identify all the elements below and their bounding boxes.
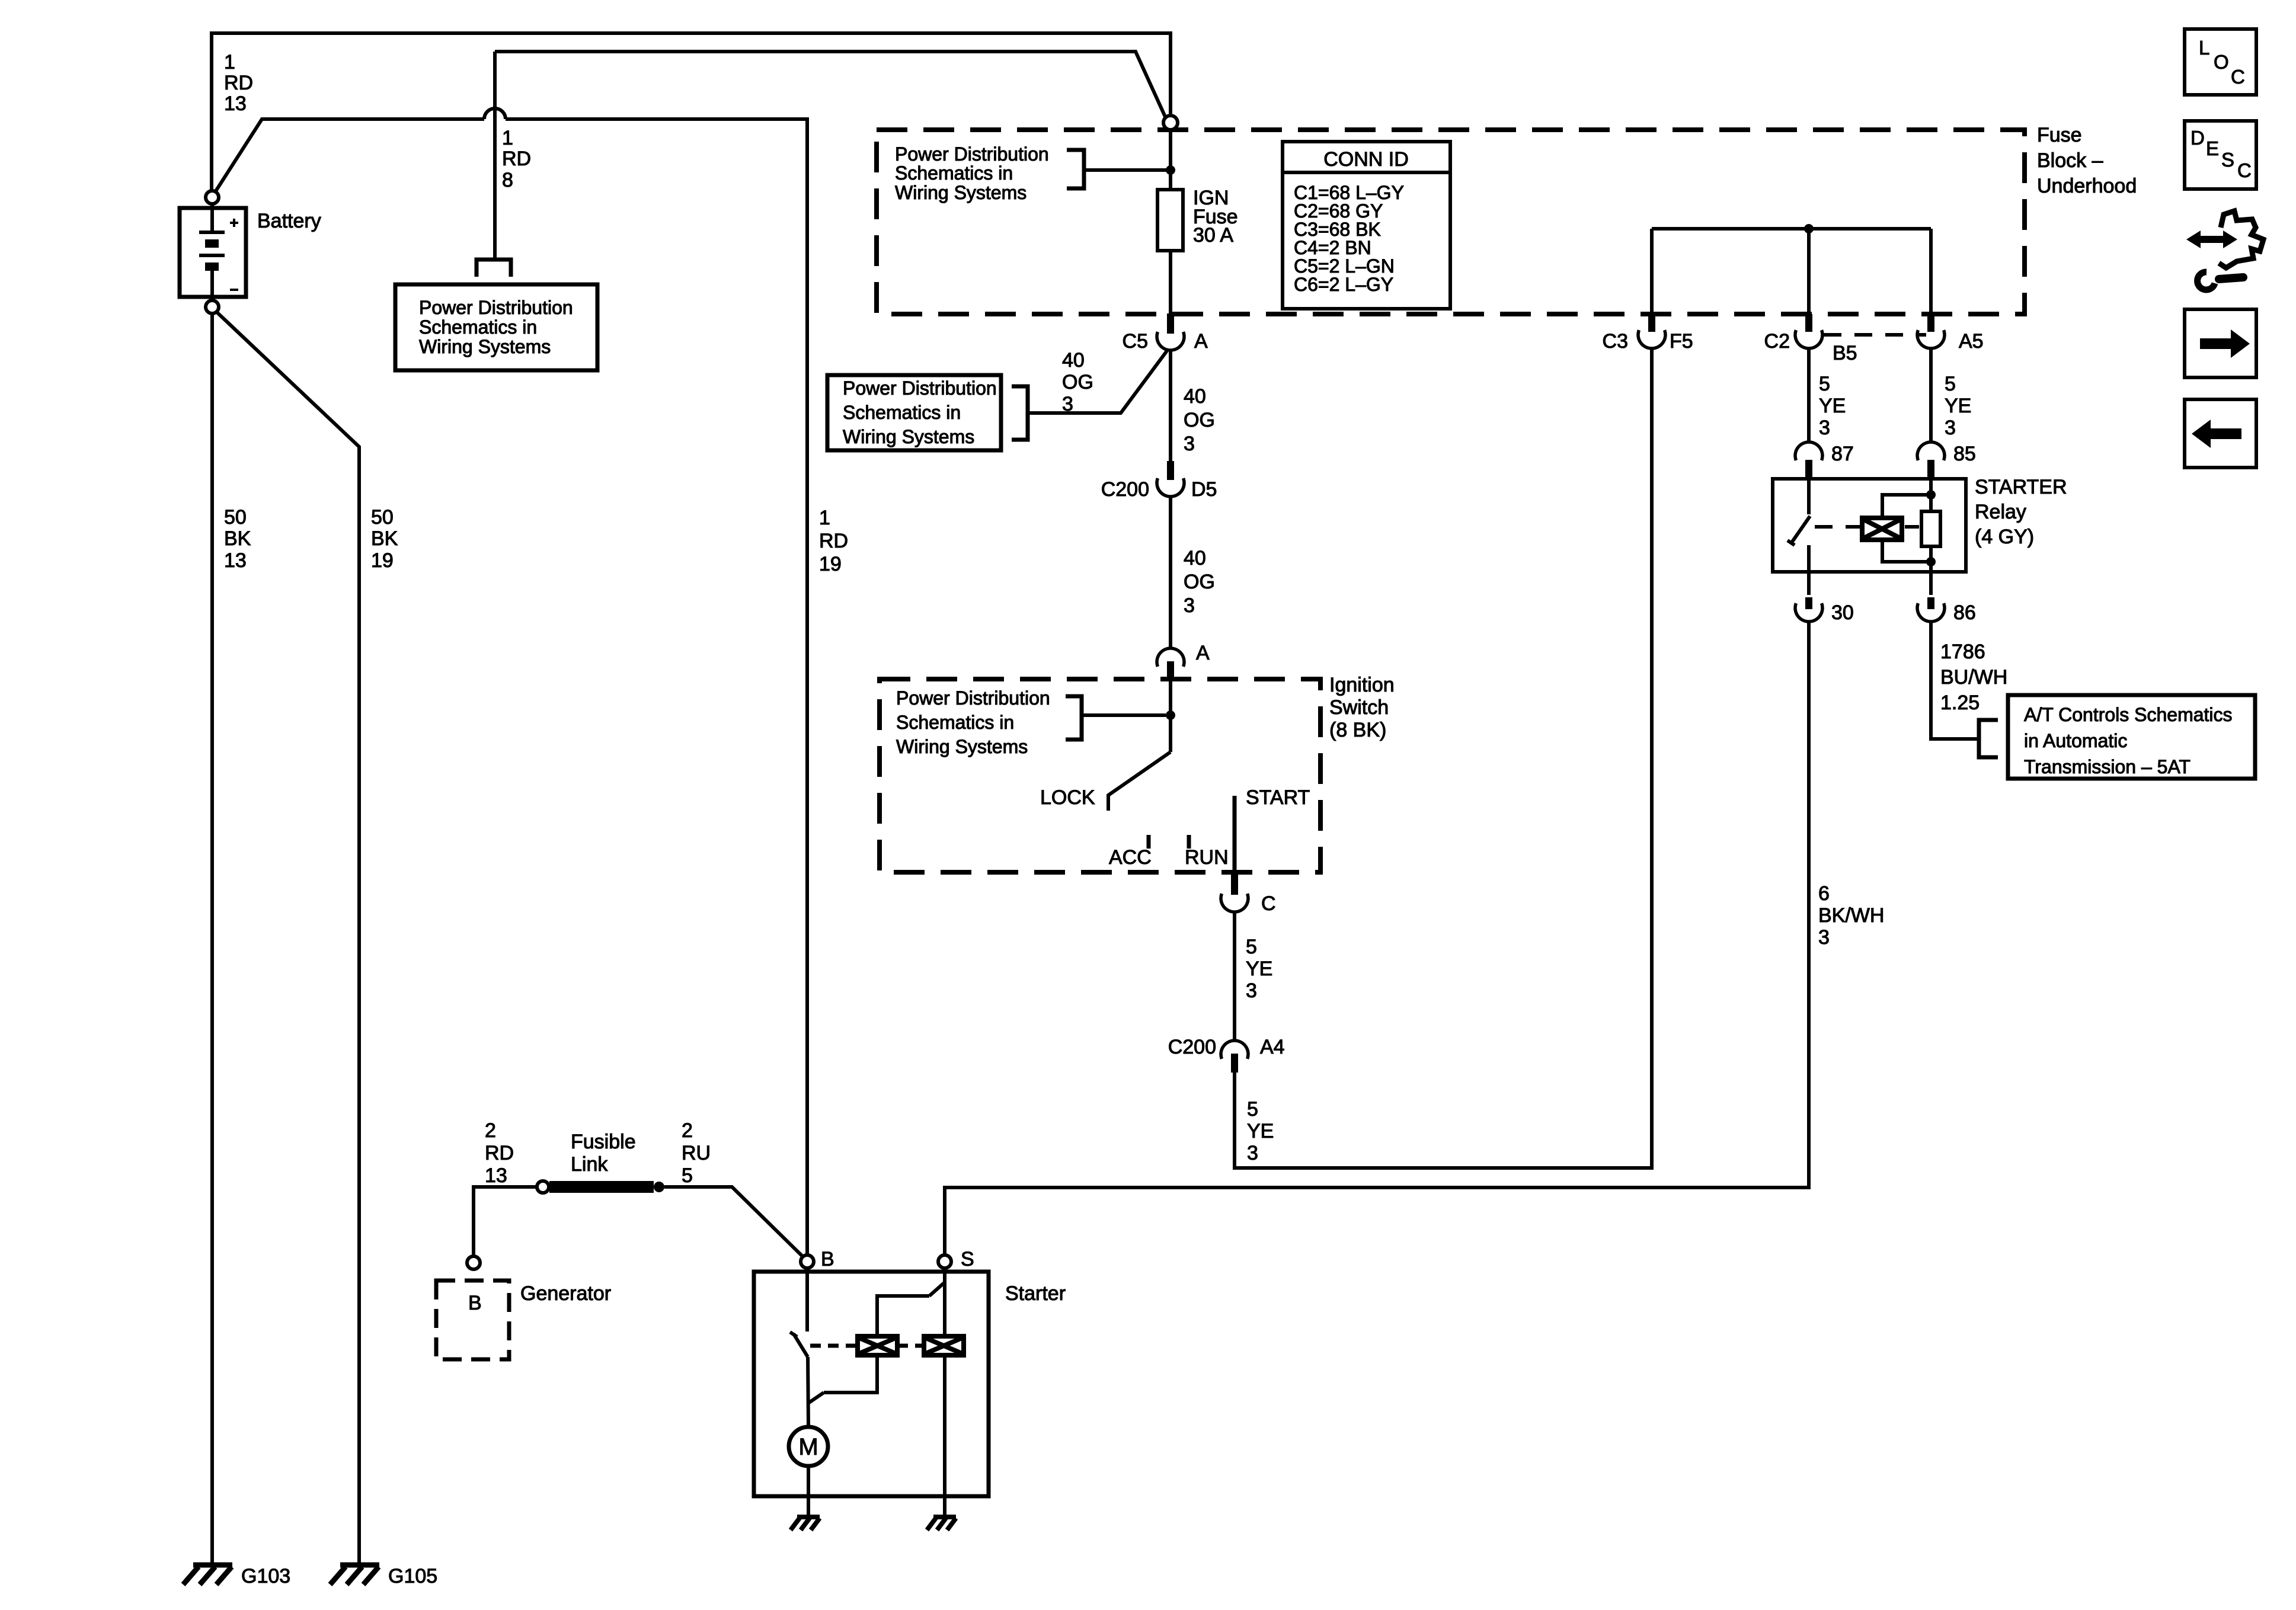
connector 85 cap	[1917, 442, 1945, 460]
svg-text:30 A: 30 A	[1193, 224, 1233, 247]
svg-text:Schematics in: Schematics in	[419, 316, 537, 338]
wire 1 RD 19 to starter B terminal	[506, 119, 807, 1255]
starter pull-in bottom wire	[824, 1355, 877, 1393]
svg-text:2: 2	[682, 1119, 693, 1142]
fuse block underhood dashed box	[877, 130, 2025, 314]
svg-text:5: 5	[1819, 373, 1830, 395]
wire A into ignition switch	[1169, 681, 1172, 752]
connector C200-D5 stub	[1167, 461, 1174, 480]
svg-text:YE: YE	[1945, 395, 1971, 417]
ground G103	[183, 1565, 232, 1585]
battery plate thick 2	[205, 263, 219, 271]
svg-text:50: 50	[224, 506, 247, 529]
svg-text:3: 3	[1062, 393, 1073, 415]
svg-text:Transmission – 5AT: Transmission – 5AT	[2024, 756, 2191, 777]
svg-text:RU: RU	[682, 1142, 711, 1164]
svg-text:YE: YE	[1819, 395, 1846, 417]
connector A5 cup	[1917, 330, 1945, 348]
connector C200-A4 stub	[1231, 1054, 1238, 1073]
svg-text:Underhood: Underhood	[2037, 175, 2137, 197]
svg-text:LOCK: LOCK	[1040, 786, 1095, 809]
svg-text:3: 3	[1945, 417, 1956, 439]
svg-text:BK: BK	[371, 527, 398, 550]
svg-text:Block –: Block –	[2037, 149, 2103, 172]
svg-text:C200: C200	[1168, 1036, 1216, 1058]
wire 6 BK/WH 3 from relay 30 to starter S	[945, 622, 1809, 1255]
svg-text:Power Distribution: Power Distribution	[895, 143, 1049, 165]
svg-text:OG: OG	[1184, 409, 1215, 431]
ACC contact tick	[1147, 835, 1151, 849]
DESC icon letters	[2191, 127, 2252, 181]
starter motor ground lead	[807, 1466, 810, 1517]
svg-text:Battery: Battery	[257, 210, 321, 232]
svg-text:Generator: Generator	[520, 1282, 611, 1305]
ignition switch wiper to LOCK	[1108, 752, 1171, 811]
svg-text:85: 85	[1953, 443, 1976, 465]
node splice above fuse block	[1163, 116, 1178, 130]
svg-text:3: 3	[1247, 1142, 1258, 1164]
svg-text:Power Distribution: Power Distribution	[896, 687, 1050, 709]
relay 87 wire to switch	[1807, 479, 1811, 514]
generator dashed box	[436, 1281, 509, 1359]
svg-text:A: A	[1196, 642, 1210, 664]
svg-text:BU/WH: BU/WH	[1940, 666, 2007, 689]
svg-text:START: START	[1246, 786, 1310, 809]
svg-text:Starter: Starter	[1005, 1282, 1066, 1305]
battery plus sign	[230, 219, 238, 227]
svg-text:YE: YE	[1247, 1120, 1274, 1142]
connector C5-A stub	[1167, 313, 1174, 334]
wire battery positive to 1 RD 19 run	[215, 119, 484, 192]
svg-text:1: 1	[502, 127, 513, 149]
LOC icon box	[2185, 29, 2256, 95]
starter relay box	[1773, 479, 1966, 572]
svg-text:RD: RD	[485, 1142, 514, 1164]
connector 30 cup	[1795, 603, 1822, 622]
svg-text:C: C	[2237, 159, 2252, 181]
svg-text:3: 3	[1246, 980, 1257, 1002]
svg-text:Schematics in: Schematics in	[843, 402, 961, 423]
connector C2-B5 stub	[1805, 314, 1812, 332]
RUN contact tick	[1187, 835, 1191, 849]
wire battery positive to top rail (1 RD 13)	[212, 33, 1171, 190]
svg-text:Link: Link	[571, 1153, 608, 1176]
power distribution box 2 text	[843, 377, 997, 447]
svg-text:40: 40	[1062, 349, 1085, 372]
relay resistor top lead	[1929, 495, 1933, 511]
starter hold-in winding crossed box	[924, 1336, 964, 1355]
wire bus to A5	[1929, 229, 1933, 314]
svg-text:C200: C200	[1101, 478, 1149, 501]
forward arrow icon box	[2185, 309, 2256, 377]
svg-text:A/T Controls Schematics: A/T Controls Schematics	[2024, 704, 2233, 725]
relay actuator dashed line	[1815, 525, 1862, 529]
svg-text:5: 5	[1247, 1098, 1258, 1121]
battery plate long 2	[199, 254, 225, 257]
CONN ID table rows	[1294, 182, 1404, 295]
svg-text:RD: RD	[819, 530, 848, 552]
svg-text:G103: G103	[241, 1565, 290, 1587]
relay junction dot bottom	[1926, 557, 1936, 566]
starter actuator dashed line	[810, 1344, 924, 1348]
svg-text:5: 5	[682, 1164, 693, 1187]
wire 40 OG 3 from C5 to C200	[1169, 350, 1172, 461]
connector A cap (ignition switch)	[1157, 648, 1184, 667]
svg-text:E: E	[2206, 137, 2219, 159]
DESC icon box	[2185, 121, 2256, 189]
wire 40 OG 3 branch to bracket	[1028, 351, 1167, 413]
START contact line	[1233, 796, 1237, 877]
service icon outline	[2219, 211, 2263, 268]
svg-text:C3: C3	[1603, 330, 1628, 353]
svg-text:RUN: RUN	[1185, 846, 1229, 869]
LOC icon letters	[2199, 37, 2245, 88]
svg-text:(4 GY): (4 GY)	[1975, 526, 2034, 548]
dashed connector body B5 to A5	[1824, 333, 1926, 337]
wire 5 YE 3 from C to C200 A4	[1233, 912, 1236, 1041]
svg-text:OG: OG	[1062, 371, 1093, 393]
svg-text:C6=2 L–GY: C6=2 L–GY	[1294, 274, 1393, 295]
svg-text:D5: D5	[1191, 478, 1217, 501]
battery box	[180, 208, 246, 297]
starter B wire inside box	[805, 1268, 809, 1331]
relay switch blade serif	[1787, 540, 1795, 545]
starter pull-in top wire	[877, 1296, 929, 1336]
svg-text:19: 19	[819, 553, 842, 575]
ground G105	[330, 1565, 379, 1585]
connector 87 stub	[1805, 460, 1812, 479]
starter B terminal circle	[801, 1255, 814, 1268]
svg-text:19: 19	[371, 549, 394, 572]
power distribution box 2	[827, 375, 1001, 450]
IGN fuse element	[1157, 190, 1183, 251]
svg-text:L: L	[2199, 37, 2209, 59]
svg-text:C5: C5	[1123, 330, 1148, 353]
starter S wire inside box	[943, 1268, 946, 1336]
svg-text:RD: RD	[502, 148, 531, 170]
wire 2 RU 5 fusible link to starter B	[664, 1187, 803, 1257]
battery negative terminal circle	[206, 300, 219, 313]
svg-text:C2: C2	[1764, 330, 1790, 353]
wire hop over 1 RD 8 (no connection)	[484, 108, 506, 119]
relay resistor bottom lead	[1929, 546, 1933, 572]
svg-text:Relay: Relay	[1975, 501, 2026, 523]
svg-text:A: A	[1194, 330, 1208, 353]
relay resistor element	[1921, 511, 1940, 546]
relay switch lower contact wire	[1807, 545, 1811, 572]
relay winding top wire	[1882, 495, 1931, 518]
connector C200-A4 cap	[1221, 1041, 1248, 1059]
starter pull-in winding crossed box	[858, 1336, 897, 1355]
svg-text:S: S	[961, 1248, 974, 1270]
wire 50 BK 13 battery negative to G103	[210, 313, 214, 1565]
starter switch to motor wire	[808, 1357, 808, 1427]
connector C2-B5 cup	[1795, 330, 1822, 348]
svg-text:BK: BK	[224, 527, 251, 550]
power distribution box 1	[395, 284, 597, 370]
power distribution text inside ignition switch	[896, 687, 1050, 757]
svg-text:Fusible: Fusible	[571, 1131, 636, 1153]
relay winding crossed box	[1862, 518, 1902, 540]
connector C3-F5 stub	[1648, 314, 1655, 332]
power distribution text inside fuse block	[895, 143, 1049, 203]
back arrow icon box	[2185, 399, 2256, 468]
wire 2 RD 13 generator to fusible link	[474, 1187, 536, 1256]
connector C stub (ignition bottom)	[1231, 871, 1238, 895]
connector 86 cup	[1917, 603, 1945, 622]
wire node to IGN fuse	[1169, 130, 1172, 190]
wire 5 YE 3 C2 to relay 87	[1807, 349, 1811, 442]
starter pull-in branch diagonal	[809, 1393, 824, 1403]
svg-text:A5: A5	[1959, 330, 1984, 353]
svg-text:O: O	[2214, 51, 2229, 73]
generator B terminal circle	[467, 1256, 480, 1269]
svg-text:87: 87	[1831, 443, 1854, 465]
svg-text:1: 1	[224, 51, 235, 73]
svg-text:8: 8	[502, 169, 513, 191]
starter box	[754, 1272, 989, 1496]
relay actuator dash right of winding	[1905, 525, 1919, 529]
CONN ID table box	[1283, 142, 1450, 309]
battery internal top lead	[210, 204, 214, 232]
wire 40 OG 3 from D5 to ignition switch A	[1169, 497, 1172, 647]
relay 86 lead below box	[1929, 572, 1933, 595]
svg-text:Switch: Switch	[1329, 696, 1389, 719]
svg-text:13: 13	[485, 1164, 507, 1187]
battery positive terminal circle	[206, 191, 219, 204]
forward arrow	[2200, 329, 2250, 358]
svg-text:G105: G105	[388, 1565, 437, 1587]
svg-text:BK/WH: BK/WH	[1818, 904, 1884, 927]
svg-text:ACC: ACC	[1109, 846, 1152, 869]
starter S branch diagonal	[929, 1282, 945, 1296]
bracket for power distribution reference (ignition switch)	[1066, 696, 1082, 740]
back arrow	[2192, 420, 2241, 448]
svg-text:6: 6	[1818, 882, 1830, 905]
wire bracket to fuse feed junction	[1084, 168, 1167, 172]
starter solenoid ground symbol	[927, 1517, 956, 1530]
relay switch blade	[1791, 516, 1810, 543]
junction dot inside ignition switch	[1166, 710, 1175, 720]
service icon wrench	[2198, 272, 2243, 290]
svg-text:CONN ID: CONN ID	[1323, 148, 1409, 171]
svg-text:13: 13	[224, 549, 247, 572]
starter motor circle	[789, 1427, 828, 1466]
fusible link left terminal circle	[537, 1181, 549, 1193]
svg-text:40: 40	[1184, 385, 1206, 408]
svg-text:1: 1	[819, 507, 830, 529]
svg-text:OG: OG	[1184, 571, 1215, 593]
connector 85 stub	[1927, 460, 1934, 479]
A/T controls schematics box	[2008, 695, 2255, 779]
svg-text:RD: RD	[224, 72, 253, 94]
svg-text:A4: A4	[1260, 1036, 1285, 1058]
svg-text:Wiring Systems: Wiring Systems	[419, 336, 551, 357]
wire bus to C2-B5	[1807, 229, 1811, 314]
svg-text:3: 3	[1184, 433, 1195, 455]
svg-text:Wiring Systems: Wiring Systems	[895, 182, 1027, 203]
fuse block inner bus junction dot	[1804, 224, 1814, 233]
battery minus sign	[230, 289, 238, 291]
svg-text:5: 5	[1945, 373, 1956, 395]
A/T controls box text	[2024, 704, 2233, 777]
svg-text:Wiring Systems: Wiring Systems	[896, 736, 1028, 757]
connector C cup	[1221, 894, 1248, 912]
svg-text:B: B	[821, 1248, 834, 1270]
svg-text:D: D	[2191, 127, 2205, 149]
svg-text:M: M	[798, 1434, 818, 1460]
connector C200-D5 cup	[1157, 478, 1184, 497]
wire 5 YE 3 from A4 to fuse block F5	[1235, 349, 1652, 1168]
svg-text:in Automatic: in Automatic	[2024, 730, 2127, 751]
fusible link right splice dot	[654, 1182, 664, 1192]
battery internal bottom lead	[210, 271, 214, 300]
svg-text:C: C	[1261, 892, 1276, 915]
svg-text:(8 BK): (8 BK)	[1329, 719, 1386, 741]
connector 30 stub	[1805, 597, 1812, 609]
svg-text:1786: 1786	[1940, 641, 1985, 663]
relay 85 wire into box	[1929, 479, 1933, 495]
bracket above power distribution box 1	[477, 260, 511, 277]
relay 85 junction dot top	[1926, 490, 1936, 500]
svg-text:Schematics in: Schematics in	[896, 712, 1014, 733]
connector C3-F5 cup	[1638, 330, 1665, 348]
svg-text:B5: B5	[1833, 342, 1857, 364]
svg-text:3: 3	[1819, 417, 1830, 439]
wire 50 BK 19 battery negative to G105	[217, 312, 359, 1565]
svg-text:Power Distribution: Power Distribution	[419, 297, 573, 318]
wire fuse to C5	[1169, 251, 1172, 314]
svg-text:40: 40	[1184, 547, 1206, 569]
svg-text:1.25: 1.25	[1940, 692, 1980, 714]
svg-text:STARTER: STARTER	[1975, 476, 2067, 498]
svg-text:F5: F5	[1670, 330, 1693, 353]
wire 1 RD 8 branch from top rail corner	[495, 52, 1165, 117]
svg-text:Wiring Systems: Wiring Systems	[843, 426, 974, 447]
battery plate long 1	[199, 231, 225, 234]
svg-text:Fuse: Fuse	[2037, 124, 2082, 146]
connector 87 cap	[1795, 442, 1822, 460]
svg-text:3: 3	[1184, 594, 1195, 617]
junction dot at fuse feed	[1166, 165, 1175, 175]
connector A5 stub	[1927, 314, 1934, 332]
bracket for A/T controls reference	[1979, 720, 1998, 757]
svg-text:Schematics in: Schematics in	[895, 162, 1013, 184]
svg-text:B: B	[468, 1292, 482, 1314]
svg-text:3: 3	[1818, 926, 1830, 949]
starter hold-in ground lead	[943, 1355, 946, 1517]
connector 86 stub	[1927, 597, 1934, 609]
wire 1 RD 8 vertical down to bracket	[493, 52, 497, 258]
svg-text:13: 13	[224, 92, 247, 115]
svg-text:Ignition: Ignition	[1329, 674, 1395, 696]
wire bus to C3-F5	[1650, 229, 1654, 314]
svg-text:Power Distribution: Power Distribution	[843, 377, 997, 399]
svg-text:50: 50	[371, 506, 394, 529]
svg-text:5: 5	[1246, 936, 1257, 958]
power distribution box 1 text	[419, 297, 573, 357]
service icon double arrow	[2186, 231, 2237, 248]
wire 5 YE 3 A5 to relay 85	[1929, 349, 1933, 442]
svg-text:YE: YE	[1246, 958, 1272, 980]
wire 1786 BU/WH 1.25 from relay 86	[1931, 622, 1979, 739]
battery plate thick 1	[205, 239, 219, 248]
connector C5-A cup	[1157, 332, 1184, 350]
starter S terminal circle	[938, 1255, 951, 1268]
starter switch blade	[794, 1334, 808, 1357]
wire bracket to ignition junction	[1082, 713, 1166, 717]
CONN ID table title divider	[1283, 171, 1450, 174]
fuse block inner bus wire	[1652, 227, 1931, 231]
svg-text:30: 30	[1831, 601, 1854, 624]
relay winding bottom wire	[1882, 540, 1931, 562]
svg-text:86: 86	[1953, 601, 1976, 624]
connector A stub	[1167, 661, 1174, 681]
bracket for power distribution box 2	[1012, 386, 1028, 440]
fusible link element	[549, 1181, 654, 1193]
starter motor ground symbol	[791, 1517, 820, 1530]
bracket for power distribution reference (fuse block)	[1067, 150, 1084, 188]
relay 30 lead below box	[1807, 572, 1811, 595]
svg-text:C: C	[2231, 66, 2245, 88]
starter switch blade serif	[790, 1332, 797, 1337]
svg-text:S: S	[2221, 149, 2234, 171]
svg-text:2: 2	[485, 1119, 496, 1142]
ignition switch dashed box	[880, 679, 1320, 872]
